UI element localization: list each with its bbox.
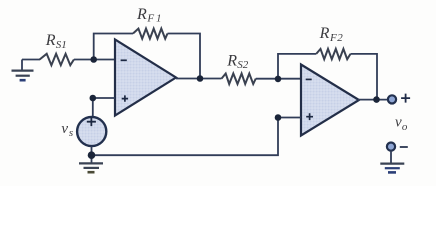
- svg-text:s: s: [69, 127, 73, 139]
- svg-text:o: o: [402, 121, 408, 133]
- svg-text:S2: S2: [237, 59, 249, 71]
- wire feedback1 right vertical: [168, 34, 201, 79]
- node U2 output junction: [373, 96, 380, 103]
- svg-text:2: 2: [337, 32, 343, 44]
- svg-text:S1: S1: [56, 39, 67, 51]
- node source top corner: [90, 95, 97, 102]
- wire feedback2 left vertical: [278, 54, 316, 79]
- wire terminal to ground G3: [390, 150, 392, 163]
- svg-text:F: F: [329, 32, 337, 44]
- terminal output minus: [387, 143, 395, 151]
- wire U2 noninverting input: [92, 118, 302, 156]
- resistor RS1: [40, 54, 74, 65]
- svg-text:R: R: [319, 25, 330, 42]
- resistor RS2: [222, 74, 256, 85]
- wire U1 noninverting input to source: [93, 98, 115, 117]
- ground G3 (bottom right): [380, 164, 404, 173]
- wire feedback2 right vertical: [351, 54, 378, 100]
- wire RS1 to U1 inverting input: [74, 59, 115, 61]
- terminal output plus: [388, 95, 396, 103]
- resistor RF2: [316, 49, 350, 59]
- svg-text:F: F: [146, 12, 154, 24]
- svg-text:v: v: [61, 121, 68, 137]
- op-amp U2: [301, 65, 359, 136]
- svg-text:R: R: [45, 32, 56, 49]
- wire U1 output: [176, 78, 222, 80]
- wire ground to RS1: [22, 59, 40, 61]
- svg-text:R: R: [226, 52, 237, 69]
- node U2 inverting input junction: [275, 76, 282, 83]
- node U1 output junction: [197, 75, 204, 82]
- plus sign output: [401, 94, 410, 103]
- node junction inverting input U1: [90, 56, 97, 63]
- wire U2 output: [358, 99, 388, 101]
- wire RS2 to U2 inverting input: [256, 78, 301, 80]
- svg-text:1: 1: [156, 12, 162, 24]
- wire source bottom: [91, 146, 93, 163]
- svg-text:R: R: [136, 6, 147, 23]
- node U2 noninverting junction: [275, 114, 282, 121]
- node source bottom junction: [88, 151, 96, 159]
- source VS: [77, 117, 106, 146]
- minus sign output: [400, 146, 408, 148]
- ground G2 (below source): [79, 163, 103, 172]
- op-amp U1: [115, 40, 176, 116]
- resistor RF1: [133, 29, 168, 39]
- ground G1 (left): [12, 60, 34, 81]
- wire feedback1 left vertical: [94, 34, 133, 60]
